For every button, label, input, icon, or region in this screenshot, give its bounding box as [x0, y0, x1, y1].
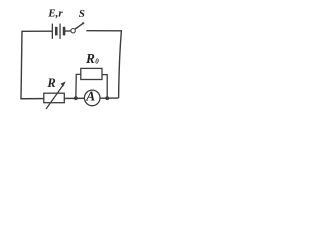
svg-text:A: A: [85, 88, 95, 103]
svg-text:R: R: [85, 51, 95, 66]
svg-text:0: 0: [95, 58, 99, 66]
svg-text:R: R: [46, 76, 55, 90]
svg-text:E,r: E,r: [47, 7, 63, 19]
svg-text:S: S: [79, 8, 85, 20]
